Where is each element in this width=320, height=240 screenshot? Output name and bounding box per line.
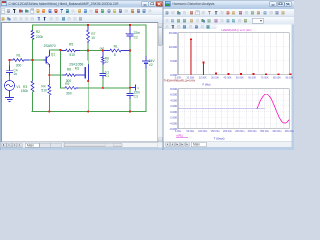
plot client area: [164, 24, 292, 141]
svg-text:0.000: 0.000: [170, 110, 177, 114]
svg-text:R2: R2: [36, 30, 40, 34]
svg-text:THD(HARM(v(RL)))=0.6%: THD(HARM(v(RL)))=0.6%: [164, 79, 196, 83]
svg-text:100.00u: 100.00u: [198, 130, 208, 133]
node: collector junction: [0, 0, 1, 1]
wire: R2 to base node: [32, 40, 34, 61]
upper plot x-axis labels: [175, 76, 294, 79]
svg-text:510: 510: [41, 88, 47, 92]
flat trace (settling): [178, 108, 265, 110]
svg-text:-2.000: -2.000: [169, 116, 177, 120]
wire: M1 source down across rail to bottom rail: [87, 81, 89, 112]
harmonic stems: [190, 38, 291, 75]
right toolbar row 3 (wrapped): [164, 24, 217, 29]
svg-text:50.00u: 50.00u: [187, 130, 195, 133]
wire: R5 to drain node: [81, 50, 89, 52]
svg-text:R1: R1: [17, 53, 21, 57]
node: source rail / C3 junction: [0, 0, 1, 1]
upper plot grid and frame: [178, 33, 289, 75]
svg-text:R8: R8: [67, 67, 71, 71]
wire: bottom rail: [32, 111, 146, 113]
wire: C1 to source rail: [102, 79, 104, 88]
svg-text:v(RL): v(RL): [176, 134, 183, 138]
svg-text:450.00u: 450.00u: [285, 130, 294, 133]
svg-text:Q1: Q1: [51, 53, 56, 57]
battery V2 34V: [143, 57, 156, 70]
left window min/max/close buttons: [142, 2, 149, 7]
upper plot y-axis labels: [169, 31, 178, 77]
svg-text:10: 10: [105, 60, 109, 64]
wire: base node down to R3: [32, 60, 34, 81]
wire: R3 to bottom rail: [32, 92, 34, 112]
right window frame: [163, 0, 294, 150]
wire: right rail upper (to V2 +): [145, 25, 147, 57]
svg-text:300: 300: [16, 64, 22, 68]
svg-text:40.00K: 40.00K: [223, 76, 231, 79]
capacitor C1 0.1 (zobel): [100, 70, 109, 79]
svg-text:6.000: 6.000: [170, 93, 177, 97]
node: input corner junction: [0, 0, 1, 1]
resistor R3 150k: [21, 81, 34, 93]
resistor R8 300 (gate): [49, 67, 83, 83]
node: out: [0, 0, 1, 1]
node: C3 / bottom rail: [0, 0, 1, 1]
wire: Q1 collector to node: [49, 49, 60, 51]
svg-text:80.00K: 80.00K: [273, 76, 281, 79]
left toolbar row 2: [0, 15, 163, 23]
svg-text:10.000: 10.000: [169, 45, 178, 49]
svg-text:30.00K: 30.00K: [211, 76, 219, 79]
svg-text:8: 8: [114, 53, 116, 57]
svg-text:300.00u: 300.00u: [248, 130, 258, 133]
wire: R1 to Q1 base: [30, 59, 44, 61]
capacitor C2 22m (bootstrap): [126, 25, 141, 40]
node: base junction at R2/R3 column: [0, 0, 1, 1]
svg-text:20.00K: 20.00K: [199, 76, 207, 79]
lower plot y-axis labels: [169, 87, 177, 131]
svg-text:150.00u: 150.00u: [211, 130, 221, 133]
wire: C3 to bottom rail: [129, 100, 131, 112]
transistor M1 2SK1058 (MOSFET): [69, 63, 88, 81]
svg-text:HARM(v(RL)) vs F (Hz): HARM(v(RL)) vs F (Hz): [221, 28, 251, 32]
wire: drain node to out node: [88, 50, 103, 52]
right window title bar: [163, 0, 294, 9]
svg-text:Main: Main: [193, 143, 200, 147]
svg-text:C3: C3: [134, 94, 138, 98]
svg-text:V2: V2: [149, 63, 153, 67]
svg-text:Harmonic Distortion Analysis: Harmonic Distortion Analysis: [173, 2, 215, 6]
svg-text:150k: 150k: [21, 89, 29, 93]
svg-text:400.00u: 400.00u: [272, 130, 282, 133]
transistor Q1 2SA970 (driver): [44, 44, 56, 67]
left window frame: [0, 0, 163, 150]
svg-text:60.00K: 60.00K: [248, 76, 256, 79]
svg-text:V1: V1: [16, 85, 20, 89]
lower plot x-axis labels: [175, 130, 295, 133]
svg-text:200.00u: 200.00u: [223, 130, 233, 133]
svg-text:70.00K: 70.00K: [261, 76, 269, 79]
resistor R9 300 (feedback): [61, 82, 80, 95]
right window min/max/close buttons: [270, 2, 277, 7]
svg-text:2SA970: 2SA970: [44, 44, 56, 48]
tie I1: [131, 85, 139, 90]
svg-text:T (Secs): T (Secs): [214, 136, 225, 140]
svg-text:2.000: 2.000: [170, 104, 177, 108]
svg-text:10: 10: [91, 36, 95, 40]
wire: drain to node: [87, 51, 89, 65]
wire: C2 to RL node: [129, 40, 131, 51]
right toolbar row 2: [164, 17, 295, 25]
svg-text:90.00K: 90.00K: [285, 76, 293, 79]
capacitor C3 22m: [127, 88, 140, 100]
resistor R1 300 (input series): [10, 53, 31, 67]
resistor R7 10: [87, 25, 96, 44]
svg-text:1u: 1u: [13, 72, 17, 76]
node: emitter junction: [0, 0, 1, 1]
wire: R7 to drain node: [87, 44, 89, 51]
wire: top supply rail: [33, 24, 147, 26]
wire: top rail to R2: [32, 25, 34, 31]
node: source column / bottom rail: [0, 0, 1, 1]
svg-text:-4.000: -4.000: [169, 121, 177, 125]
node: RL right / C2 column: [0, 0, 1, 1]
left window title bar: [0, 0, 163, 8]
svg-text:300: 300: [66, 91, 72, 95]
svg-text:8.000: 8.000: [170, 87, 177, 91]
node: top rail / R7: [0, 0, 1, 1]
svg-text:15.000: 15.000: [169, 31, 178, 35]
resistor R5 510: [61, 43, 81, 57]
schematic canvas: [2, 23, 159, 143]
svg-text:C1: C1: [105, 74, 109, 78]
wire: C4 to V1: [9, 76, 11, 80]
node: top rail / C2: [0, 0, 1, 1]
ground (input): [6, 98, 14, 102]
svg-text:RL: RL: [114, 44, 118, 48]
svg-text:R9: R9: [65, 82, 69, 86]
left window bottom tab bar: [0, 142, 163, 147]
lower plot grid and frame: [178, 89, 289, 129]
svg-text:4.000: 4.000: [170, 98, 177, 102]
svg-text:C:\MC12\DATA\New folder\Hibrid: C:\MC12\DATA\New folder\Hibrid_Hibrid_Ba…: [9, 2, 120, 6]
wire: V1 to ground: [9, 91, 11, 98]
wire: R4 to bottom rail: [48, 95, 50, 112]
wire: collector node down to R9 row: [60, 50, 62, 88]
svg-text:220k: 220k: [36, 35, 44, 39]
svg-text:510: 510: [69, 53, 75, 57]
capacitor C4 1u (input coupling): [6, 66, 17, 76]
svg-text:Main: Main: [27, 143, 34, 147]
svg-text:M1: M1: [75, 67, 80, 71]
wire: RL node down to source-rail node: [129, 51, 131, 88]
svg-text:5.000: 5.000: [170, 59, 177, 63]
svg-text:350.00u: 350.00u: [260, 130, 270, 133]
node: C1 / source rail: [0, 0, 1, 1]
right window bottom tab bar: [164, 141, 292, 147]
svg-text:F (Hz): F (Hz): [202, 82, 210, 86]
left toolbar row 1: [0, 8, 163, 16]
right toolbar row 1: [164, 9, 295, 17]
node: R4 / bottom rail: [0, 0, 1, 1]
node: M1 source pin: [0, 0, 1, 1]
svg-text:50.00K: 50.00K: [236, 76, 244, 79]
left window vertical scrollbar: [158, 23, 163, 143]
junction dot overlay (repaint nodes above wires): [8, 24, 131, 113]
left window horizontal scrollbar: [63, 143, 158, 148]
resistor R2 220k: [31, 30, 43, 39]
node: drain junction: [0, 0, 1, 1]
wire: right rail lower (V2 - to bottom rail): [145, 69, 147, 112]
wire: Q1 emitter to emitter node: [48, 68, 50, 76]
wire: R6 to C1: [102, 66, 104, 74]
resistor R4 510 (emitter): [41, 84, 50, 95]
resistor R6 10 (zobel): [102, 51, 110, 66]
source V1 (sine generator): [5, 81, 21, 91]
resistor RL 8 (load): [103, 44, 129, 57]
svg-text:R5: R5: [69, 43, 73, 47]
sine wave trace: [257, 94, 289, 123]
svg-text:C2: C2: [134, 35, 138, 39]
wire: emitter node to R4: [48, 75, 50, 85]
svg-text:250.00u: 250.00u: [235, 130, 245, 133]
wire: input node down to C4: [9, 60, 11, 66]
wire: R9 to source rail: [79, 87, 130, 89]
